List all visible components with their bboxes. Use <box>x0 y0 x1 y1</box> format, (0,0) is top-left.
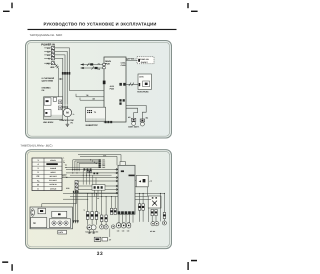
svg-text:РСВ: РСВ <box>105 63 110 66</box>
svg-text:Л1: Л1 <box>98 62 100 65</box>
svg-text:ДАТЧИК t: ДАТЧИК t <box>126 58 136 61</box>
wire <box>89 171 91 185</box>
wire descender right of sensors <box>109 229 111 238</box>
wire <box>82 171 84 185</box>
arrow pin <box>115 168 118 170</box>
bottom plug labels <box>94 237 112 241</box>
wire <box>73 160 99 171</box>
svg-text:GTS: GTS <box>139 75 144 78</box>
wire <box>125 214 127 222</box>
switch slash <box>87 63 89 66</box>
svg-text:ТАС3(4)/LRMа No. М2С: ТАС3(4)/LRMа No. М2С <box>30 33 63 37</box>
svg-text:РСВ: РСВ <box>110 87 115 90</box>
wire <box>91 219 93 224</box>
thermal protector GTS box <box>138 74 151 89</box>
svg-text:М3 М4: М3 М4 <box>150 230 155 233</box>
junction <box>72 172 73 173</box>
drain pump motors <box>87 225 96 230</box>
svg-text:НАС ДАТ ПОПЛ: НАС ДАТ ПОПЛ <box>85 230 99 233</box>
wire <box>105 197 107 215</box>
plug CN <box>117 223 121 233</box>
wire <box>66 177 115 179</box>
wire row <box>66 167 98 169</box>
arrow pin <box>115 172 118 174</box>
fan capacitor C2 <box>140 117 148 126</box>
junction <box>160 193 161 194</box>
arrow into compressor motor <box>62 104 63 109</box>
sensor body <box>105 215 107 222</box>
junction <box>164 193 165 194</box>
wire <box>92 175 94 184</box>
svg-text:РУКОВОДСТВО ПО УСТАНОВКЕ И ЭКС: РУКОВОДСТВО ПО УСТАНОВКЕ И ЭКСПЛУАТАЦИИ <box>43 21 156 26</box>
junction <box>87 193 88 194</box>
label AUX PCB <box>110 85 115 91</box>
wire <box>132 214 134 222</box>
signal wire pair into pcb left (upper) <box>81 64 105 66</box>
heater resistor <box>91 212 94 220</box>
wire <box>85 171 87 185</box>
terminal N <box>44 57 54 61</box>
wire to comp switch dashed box <box>126 59 137 61</box>
crop mark bottom-left vertical <box>11 264 12 271</box>
terminal L3 <box>44 53 54 57</box>
svg-text:ЦЕПИ 380В: ЦЕПИ 380В <box>42 80 54 83</box>
label DF relay <box>62 173 68 179</box>
arrow <box>75 220 77 223</box>
arrow pin <box>115 185 118 187</box>
compressor motor M1 <box>63 108 71 116</box>
svg-text:ТАВ03(4)/LRМа-.В(С): ТАВ03(4)/LRМа-.В(С) <box>20 143 53 147</box>
svg-text:Х1: Х1 <box>97 197 99 200</box>
terminal L1 <box>44 46 54 50</box>
contact blob <box>90 63 93 65</box>
fan cap pair below <box>151 209 157 215</box>
plug CN <box>127 223 131 233</box>
arrow <box>77 220 79 223</box>
heater resistor <box>95 212 98 220</box>
inverter output pins <box>105 121 113 123</box>
svg-text:MAIN: MAIN <box>105 60 111 63</box>
fan wire loop outer <box>126 106 146 120</box>
wire <box>79 163 98 171</box>
terminal ticks above assembly feeders <box>73 191 74 193</box>
svg-text:КРАСН: КРАСН <box>50 159 56 162</box>
junction <box>111 196 112 197</box>
fuse mark on bus <box>64 72 66 75</box>
wire N feed <box>55 58 63 104</box>
arrow into compressor motor <box>67 104 68 109</box>
junction <box>76 172 77 173</box>
wire <box>78 185 114 187</box>
wire PE drop to contactor box <box>58 69 60 97</box>
svg-text:ON/OFF: ON/OFF <box>141 61 149 64</box>
wire <box>74 192 115 194</box>
svg-text:Л2: Л2 <box>98 68 100 71</box>
fan unit box with blades <box>148 196 161 208</box>
panel 1 outline <box>26 41 172 139</box>
wire <box>96 219 98 224</box>
wire L2 feed <box>55 51 68 104</box>
svg-text:СЕРЫЙ: СЕРЫЙ <box>50 187 57 190</box>
wire <box>77 162 98 171</box>
float switch circle <box>104 225 108 229</box>
wire <box>75 161 99 171</box>
wire <box>142 193 144 203</box>
svg-text:CN5: CN5 <box>102 166 105 169</box>
svg-text:3~: 3~ <box>73 113 75 116</box>
junction <box>74 169 75 170</box>
junction <box>76 169 77 170</box>
junction <box>106 196 107 197</box>
svg-text:КМ1 БЛОК: КМ1 БЛОК <box>43 121 54 124</box>
svg-text:тн: тн <box>98 213 100 215</box>
heater resistor <box>86 212 89 220</box>
wire colour legend table <box>32 158 62 191</box>
wire <box>78 189 114 191</box>
wire <box>140 210 144 222</box>
fuse mark on bus <box>69 72 71 75</box>
junction <box>86 175 87 176</box>
indoor fan assembly box <box>30 207 73 229</box>
wire <box>73 191 75 221</box>
svg-text:КЛЕММА: КЛЕММА <box>42 87 52 90</box>
wire long right bus <box>135 192 164 194</box>
wire <box>66 168 115 170</box>
wire AR into main pcb <box>80 97 104 100</box>
header rule <box>28 29 177 30</box>
wire TW into main pcb <box>76 94 104 97</box>
svg-text:ХР1: ХР1 <box>103 155 106 158</box>
main pcb box U1 <box>104 57 126 122</box>
sensor body <box>101 215 103 222</box>
wire <box>87 194 89 212</box>
right sensor string <box>162 193 166 225</box>
inverter module box <box>86 107 106 121</box>
wire <box>105 222 107 225</box>
comp switch dashed box S1 <box>137 57 154 64</box>
note terminal PE <box>42 87 52 93</box>
fan wire loop inner <box>126 108 138 118</box>
aux relay box K2 <box>92 185 105 191</box>
svg-text:33: 33 <box>97 251 104 257</box>
svg-text:1к: 1к <box>63 161 65 164</box>
arrow <box>73 220 75 223</box>
node labels ta/to <box>65 165 68 169</box>
fuse mark on bus <box>66 72 68 75</box>
wire <box>87 219 89 224</box>
svg-text:СИНИЙ: СИНИЙ <box>50 167 57 170</box>
svg-text:CN02: CN02 <box>121 64 126 67</box>
wire <box>139 193 141 203</box>
signal wire pair into pcb left (lower) <box>81 67 105 69</box>
wire tails below motors <box>89 230 93 233</box>
wire L1 feed <box>55 48 70 91</box>
crop mark bottom-right vertical <box>187 262 188 270</box>
arrow pin <box>115 180 118 182</box>
svg-text:ХS2: ХS2 <box>66 187 69 190</box>
wire <box>101 222 103 225</box>
wires below relay box <box>94 190 96 196</box>
wire <box>77 191 79 221</box>
wires pcb right top <box>135 195 148 197</box>
svg-text:PE: PE <box>47 62 51 65</box>
svg-text:К СИЛОВОЙ: К СИЛОВОЙ <box>42 77 55 80</box>
connector column CN <box>99 159 106 162</box>
junction <box>83 175 84 176</box>
contactor box KM1 <box>44 97 63 120</box>
svg-text:COMP SW: COMP SW <box>140 58 149 61</box>
wire to louvre switch <box>135 179 136 181</box>
wire <box>112 196 116 208</box>
wire <box>91 194 93 212</box>
wire <box>96 194 98 212</box>
svg-text:КАТ2: КАТ2 <box>59 231 63 234</box>
crop mark top-right horizontal <box>191 11 198 12</box>
terminal PE <box>44 62 54 66</box>
svg-text:Ж/ЗЕЛ: Ж/ЗЕЛ <box>50 171 56 174</box>
fan motor circles <box>151 222 159 226</box>
connector pins grid on right edge <box>119 99 124 105</box>
pcb bottom terminal row <box>118 211 135 214</box>
arrow pin <box>115 189 118 191</box>
arrow pin <box>115 177 118 179</box>
crop mark horizontal <box>3 11 10 12</box>
svg-text:ИНВЕРТОР: ИНВЕРТОР <box>86 124 99 127</box>
wire from X2 to fan assembly <box>42 190 77 208</box>
junction <box>89 175 90 176</box>
louvre switch box S2 <box>136 175 148 186</box>
svg-text:М2: М2 <box>146 117 149 120</box>
arrow head <box>81 67 84 69</box>
plug CN <box>122 223 126 233</box>
junction <box>92 193 93 194</box>
svg-text:ЧЕР-БЕЛ: ЧЕР-БЕЛ <box>49 175 57 178</box>
wire <box>101 197 103 215</box>
wire <box>159 193 161 221</box>
wire L3 feed <box>55 55 66 104</box>
svg-text:1: 1 <box>63 156 64 159</box>
wire <box>118 214 120 222</box>
junction <box>143 193 144 194</box>
svg-text:ВЕНТ. ВЕНТ.: ВЕНТ. ВЕНТ. <box>128 126 139 129</box>
svg-text:РЕЛЕ: РЕЛЕ <box>62 176 68 179</box>
crop mark vertical <box>11 3 12 9</box>
junction <box>72 169 73 170</box>
switch slash <box>92 66 94 69</box>
main pcb left terminals <box>103 63 106 84</box>
wire from pcb down right <box>135 187 148 196</box>
right pair sensor boxes <box>110 208 116 214</box>
junction <box>101 196 102 197</box>
wire <box>129 214 131 222</box>
fan capacitor C1 <box>128 116 136 125</box>
contact blob <box>95 67 98 69</box>
top feed wires <box>78 155 121 162</box>
svg-text:КОРИЧН: КОРИЧН <box>49 183 57 186</box>
junction <box>139 193 140 194</box>
arrow into compressor motor <box>64 104 65 109</box>
junction <box>87 199 88 200</box>
crop mark bottom-right horizontal <box>191 260 197 262</box>
thermistor circle <box>111 225 115 229</box>
feeder bus 2 <box>70 196 118 198</box>
wire <box>66 172 115 174</box>
arrow pin <box>115 192 118 194</box>
wire <box>78 180 114 182</box>
note to power supply <box>42 77 63 83</box>
fan box pins <box>152 197 154 198</box>
float switch circle <box>100 225 104 229</box>
wire <box>95 178 97 185</box>
arrow head <box>81 63 84 65</box>
ground symbol PE of motor <box>66 117 74 127</box>
boxed label under assembly <box>58 230 67 234</box>
svg-text:ЗЕЛ.ЖЕЛ: ЗЕЛ.ЖЕЛ <box>49 179 57 182</box>
crop mark top-right vertical <box>187 3 188 8</box>
svg-text:М: М <box>33 222 35 225</box>
feeder bus 3 <box>63 198 88 200</box>
fuse mark on bus <box>62 72 64 75</box>
panel 2 outline <box>26 150 172 249</box>
junction dots on rows <box>90 159 91 160</box>
connector CN on right edge (to GTS) <box>119 83 125 86</box>
terminal L2 <box>44 50 54 54</box>
junction <box>79 169 80 170</box>
svg-text:CN01: CN01 <box>121 61 126 64</box>
terminal strip X2 <box>75 181 78 191</box>
crop mark bottom-left horizontal <box>2 261 8 263</box>
PE cable run with slash marks and 4G6 label <box>50 63 59 69</box>
wire to thermal relay with switch slash <box>126 83 139 86</box>
small connector marks mid <box>93 172 95 174</box>
control pcb box U2 <box>118 162 135 215</box>
wire <box>122 214 124 222</box>
wire L1 to main pcb <box>69 90 104 92</box>
capacitor pair right <box>138 204 144 210</box>
svg-text:AUX: AUX <box>110 85 115 88</box>
svg-text:ТЕПЛ.РЕЛЕ: ТЕПЛ.РЕЛЕ <box>137 90 149 93</box>
relay contact marks <box>83 168 91 172</box>
feeder bus from pcb lower left <box>63 193 118 195</box>
wire row <box>70 174 112 176</box>
junction <box>96 193 97 194</box>
svg-text:тн: тн <box>83 210 85 212</box>
wire under fan box <box>148 208 150 222</box>
wire <box>152 216 156 222</box>
wire <box>75 191 77 221</box>
svg-text:М1: М1 <box>128 116 131 119</box>
